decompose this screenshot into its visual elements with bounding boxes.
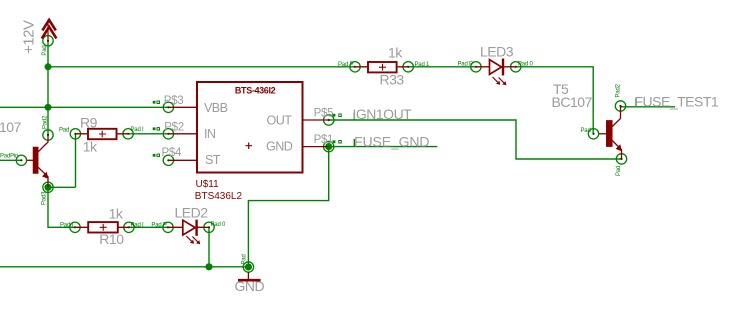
svg-text:Pad: Pad: [581, 128, 591, 134]
svg-text:Pad2: Pad2: [43, 115, 49, 129]
svg-text:Pad I: Pad I: [131, 127, 145, 133]
svg-text:P$4: P$4: [162, 147, 182, 159]
svg-text:BC107: BC107: [0, 119, 22, 135]
svg-text:Pad: Pad: [242, 254, 248, 264]
svg-text:P$1: P$1: [314, 134, 334, 146]
svg-text:Pad I: Pad I: [60, 223, 74, 229]
svg-text:+12V: +12V: [21, 20, 38, 54]
svg-text:P$2: P$2: [164, 121, 184, 133]
svg-text:Pad P: Pad P: [458, 61, 474, 67]
svg-text:P$3: P$3: [164, 95, 184, 107]
svg-text:BTS436L2: BTS436L2: [195, 191, 243, 202]
svg-text:U$11: U$11: [196, 179, 220, 190]
svg-text:PadPin: PadPin: [0, 154, 18, 160]
svg-text:IGN1OUT: IGN1OUT: [353, 106, 413, 122]
svg-text:FUSE_TEST1: FUSE_TEST1: [635, 93, 719, 109]
svg-text:Pad 1: Pad 1: [415, 62, 431, 68]
svg-text:Pad: Pad: [616, 166, 622, 176]
svg-text:Pad P: Pad P: [151, 223, 167, 229]
svg-text:VBB: VBB: [204, 101, 228, 115]
svg-text:Pad 0: Pad 0: [518, 61, 534, 67]
svg-text:GND: GND: [235, 278, 265, 294]
svg-text:BTS-436I2: BTS-436I2: [235, 86, 276, 96]
svg-text:ST: ST: [205, 153, 221, 167]
svg-text:Pad2: Pad2: [616, 83, 622, 97]
svg-text:Pad: Pad: [59, 127, 69, 133]
svg-text:FUSE_GND: FUSE_GND: [354, 133, 429, 149]
svg-text:GND: GND: [266, 140, 293, 154]
svg-text:Pad: Pad: [42, 46, 48, 56]
svg-text:R33: R33: [380, 72, 405, 88]
svg-text:LED2: LED2: [175, 204, 209, 220]
svg-text:R9: R9: [80, 115, 98, 131]
svg-text:BC107: BC107: [552, 94, 593, 110]
svg-text:Pad I: Pad I: [131, 223, 145, 229]
svg-text:R10: R10: [99, 231, 124, 247]
svg-text:1k: 1k: [388, 44, 403, 60]
svg-text:OUT: OUT: [267, 113, 293, 127]
svg-text:Pad P: Pad P: [338, 62, 354, 68]
svg-text:LED3: LED3: [480, 44, 514, 60]
svg-text:1k: 1k: [83, 139, 98, 155]
svg-text:1k: 1k: [109, 205, 124, 221]
svg-text:Pad3: Pad3: [42, 191, 48, 205]
svg-text:P$5: P$5: [314, 108, 334, 120]
svg-text:IN: IN: [204, 127, 216, 141]
svg-text:Pad 0: Pad 0: [211, 222, 227, 228]
